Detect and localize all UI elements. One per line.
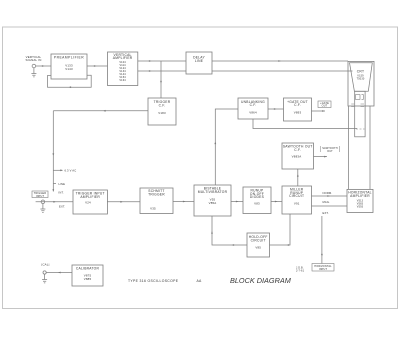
- svg-text:CRT: CRT: [357, 70, 364, 74]
- svg-text:V893: V893: [294, 111, 302, 115]
- svg-text:C.F.: C.F.: [294, 148, 301, 152]
- svg-text:V85A: V85A: [209, 201, 217, 205]
- svg-text:INPUT: INPUT: [319, 268, 328, 271]
- svg-text:C.F.: C.F.: [250, 103, 257, 107]
- svg-text:EXT.: EXT.: [59, 205, 65, 209]
- svg-text:T5030: T5030: [357, 78, 365, 81]
- svg-text:V864: V864: [249, 111, 257, 115]
- svg-text:SIGNAL IN: SIGNAL IN: [26, 58, 42, 62]
- svg-text:CIRCUIT: CIRCUIT: [289, 194, 304, 198]
- svg-text:AMPLIFIER: AMPLIFIER: [350, 194, 370, 198]
- svg-text:V593: V593: [357, 206, 364, 209]
- svg-text:V24: V24: [85, 201, 91, 205]
- svg-text:V885: V885: [84, 277, 92, 281]
- svg-text:INT.: INT.: [59, 190, 64, 194]
- svg-text:V183: V183: [158, 111, 166, 115]
- svg-text:V83: V83: [254, 202, 260, 206]
- svg-text:C.F.: C.F.: [294, 103, 301, 107]
- svg-text:CALIBRATOR: CALIBRATOR: [76, 267, 100, 271]
- svg-text:LINE: LINE: [59, 182, 66, 186]
- svg-text:V883A: V883A: [292, 154, 302, 158]
- svg-text:V143: V143: [65, 67, 73, 71]
- svg-text:DIODES: DIODES: [250, 195, 265, 199]
- svg-text:TYPE 316 OSCILLOSCOPE: TYPE 316 OSCILLOSCOPE: [128, 279, 179, 283]
- svg-text:V91: V91: [294, 202, 300, 206]
- svg-text:C.F.: C.F.: [159, 104, 166, 108]
- svg-text:OUT: OUT: [327, 150, 333, 153]
- svg-text:AA: AA: [197, 279, 203, 283]
- svg-text:2-7-61: 2-7-61: [296, 269, 305, 272]
- svg-text:CIRCUIT: CIRCUIT: [251, 238, 266, 242]
- svg-text:NORM.: NORM.: [323, 191, 333, 195]
- svg-text:AMPLIFIER: AMPLIFIER: [80, 195, 100, 199]
- svg-text:BLOCK DIAGRAM: BLOCK DIAGRAM: [230, 276, 292, 285]
- svg-text:LINE: LINE: [195, 59, 204, 63]
- svg-text:INPUT: INPUT: [36, 195, 45, 198]
- svg-text:EXT.: EXT.: [323, 211, 329, 215]
- svg-text:TRIGGER: TRIGGER: [148, 192, 165, 196]
- svg-text:V164: V164: [119, 79, 126, 82]
- svg-text:V85: V85: [255, 246, 261, 250]
- svg-text:V35: V35: [150, 207, 156, 211]
- svg-text:OUT: OUT: [322, 105, 328, 108]
- svg-text:PREAMPLIFIER: PREAMPLIFIER: [54, 55, 84, 59]
- svg-text:MAG.: MAG.: [323, 200, 331, 204]
- svg-text:AMPLIFIER: AMPLIFIER: [113, 56, 133, 60]
- svg-text:MULTIVIBRATOR: MULTIVIBRATOR: [198, 190, 228, 194]
- svg-text:6.3 V AC: 6.3 V AC: [65, 169, 77, 173]
- svg-text:|CAL|: |CAL|: [41, 263, 49, 267]
